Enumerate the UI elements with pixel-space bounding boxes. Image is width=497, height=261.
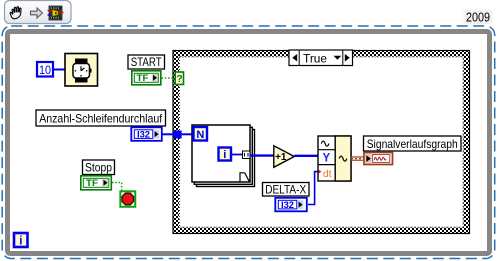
- loop condition stop terminal: [120, 191, 135, 207]
- svg-text:dt: dt: [323, 168, 332, 180]
- Signalverlaufsgraph label: [364, 136, 462, 151]
- DELTA-X label: [263, 182, 310, 196]
- DELTA-X I32 terminal: [275, 198, 307, 212]
- case structure border: [173, 51, 470, 234]
- svg-text:TF: TF: [137, 73, 150, 83]
- wire 10 to wait: [53, 69, 65, 71]
- wire Stopp to loop condition (dotted green): [112, 183, 122, 192]
- wire tunnel to +1: [250, 154, 274, 156]
- for loop (stacked pages): [192, 125, 255, 187]
- pan hand tool icon: [10, 7, 21, 19]
- case selector label "True": [289, 50, 353, 66]
- svg-text:10: 10: [39, 65, 51, 77]
- run arrow icon: [31, 8, 43, 18]
- svg-text:N: N: [196, 129, 204, 141]
- Stopp boolean terminal TF: [81, 176, 112, 190]
- Stopp label: [83, 160, 115, 175]
- svg-text:I32: I32: [281, 200, 294, 210]
- wire +1 to build waveform Y: [294, 155, 318, 157]
- svg-text:i: i: [223, 149, 226, 161]
- increment node +1: [274, 146, 295, 168]
- Anzahl I32 terminal: [131, 127, 162, 141]
- wait (ms) timer VI icon: [65, 54, 98, 87]
- 2009 version tag: [464, 10, 493, 25]
- svg-text:START: START: [131, 55, 163, 69]
- DELTA-X wire to dt: [308, 172, 318, 205]
- wire I32 to tunnel: [162, 133, 174, 135]
- svg-text:Anzahl-Schleifendurchlauf: Anzahl-Schleifendurchlauf: [39, 112, 163, 126]
- svg-text:+1: +1: [275, 152, 287, 163]
- case input tunnel (solid): [174, 131, 182, 139]
- build waveform node: [318, 136, 351, 181]
- svg-text:?: ?: [176, 73, 182, 85]
- waveform wire to graph terminal: [351, 157, 364, 160]
- START boolean terminal TF: [132, 71, 161, 85]
- svg-text:TF: TF: [86, 178, 99, 188]
- auto-indexing tunnel []: [242, 151, 250, 158]
- svg-text:DELTA-X: DELTA-X: [265, 182, 306, 196]
- svg-text:i: i: [19, 235, 22, 247]
- Anzahl-Schleifendurchlauf label: [36, 110, 166, 126]
- while loop iteration terminal i: [14, 233, 28, 247]
- numeric constant 10: [37, 62, 53, 77]
- case selector terminal ?: [175, 72, 183, 85]
- for loop count terminal N: [194, 127, 208, 141]
- START label: [128, 55, 165, 69]
- svg-text:2009: 2009: [466, 10, 490, 25]
- wire START to case selector (dotted green): [162, 77, 176, 79]
- for loop iteration terminal i: [219, 148, 232, 161]
- svg-text:I32: I32: [137, 129, 150, 139]
- svg-text:True: True: [303, 51, 327, 65]
- svg-text:Y: Y: [322, 152, 330, 164]
- toolbar palette box: [5, 1, 72, 24]
- VI film icon: [48, 6, 64, 20]
- wire tunnel to N: [182, 133, 194, 135]
- svg-text:Stopp: Stopp: [85, 161, 112, 175]
- waveform graph indicator terminal: [364, 153, 393, 165]
- svg-text:Signalverlaufsgraph: Signalverlaufsgraph: [367, 137, 458, 151]
- wire i to tunnel: [232, 154, 244, 156]
